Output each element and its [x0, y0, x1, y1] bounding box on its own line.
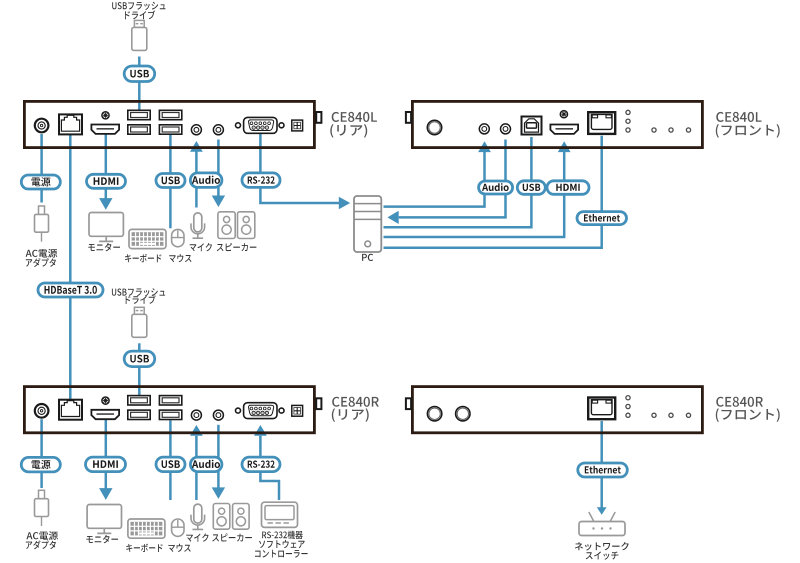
label キーボード (top): [125, 254, 161, 262]
wire power DC jack to AC adapter (bottom): [40, 419, 43, 488]
label アダプタ (top): [26, 258, 56, 267]
CE840R front pushbuttons: [652, 413, 691, 417]
label CE840R front (フロント): [716, 408, 780, 422]
wire power DC jack to AC adapter (top): [40, 134, 43, 203]
label モニター (bottom): [86, 535, 118, 543]
CE840L rear terminal block: [292, 120, 303, 131]
label PC: [362, 254, 373, 261]
label ドライブ (top) line2: [125, 11, 155, 20]
label スピーカー (bottom): [212, 533, 252, 541]
icon speakers (bottom): [213, 504, 249, 530]
wire PC to front HDMI: [384, 141, 571, 237]
icon mouse (top): [172, 229, 184, 246]
node USB oval (bottom left): [156, 457, 185, 472]
icon AC power adapter (top): [35, 206, 49, 242]
icon monitor (top): [89, 213, 123, 242]
CE840R rear grounding screw: [102, 397, 109, 404]
label CE840L front (フロント): [716, 124, 780, 138]
wire USB flash drive to CE840L rear USB port: [138, 57, 141, 111]
CE840R rear panel right mounting tab: [316, 398, 321, 409]
CE840L rear DC power jack: [35, 119, 49, 133]
label AC電源 (bottom): [26, 531, 58, 540]
label スイッチ: [586, 551, 619, 559]
label ソフトウェア: [259, 540, 305, 548]
label アダプタ (bottom): [26, 540, 56, 549]
label CE840R front name: [716, 397, 763, 407]
CE840R rear DC power jack: [35, 404, 49, 418]
CE840L front HDMI port: [550, 125, 578, 134]
node Audio oval (bottom): [190, 457, 222, 472]
wire front audio-out to PC: [387, 140, 505, 225]
node USB oval (bottom flash drive): [124, 351, 155, 367]
label マウス (bottom): [168, 544, 190, 552]
icon RS-232 software controller: [262, 502, 298, 527]
CE840R rear USB port 4 (bottom-right): [159, 410, 181, 419]
CE840R rear terminal block: [292, 405, 303, 416]
device CE840L rear panel chassis: [24, 101, 314, 147]
wire USB to keyboard/mouse (bottom): [169, 420, 172, 500]
CE840L rear USB port 4 (bottom-right): [159, 125, 181, 134]
CE840L rear DB9 RS-232 port screw right: [279, 123, 284, 128]
label スピーカー (top): [217, 243, 257, 251]
wire audio-out to speakers (top): [212, 140, 225, 208]
CE840R rear audio-out jack: [213, 410, 223, 420]
label コントローラー: [255, 550, 308, 558]
label モニター (top): [88, 243, 120, 251]
label マイク (top): [190, 243, 212, 251]
CE840L front grounding screw: [560, 111, 567, 118]
node Audio oval (front top): [479, 181, 513, 194]
node USB oval (top flash drive): [124, 66, 155, 82]
node 電源 oval (bottom): [21, 457, 60, 472]
node RS-232 oval (bottom): [242, 457, 280, 472]
node HDBaseT 3.0 oval: [38, 283, 103, 297]
wire HDBaseT 3.0 link CE840L to CE840R: [69, 135, 72, 400]
CE840L front audio-out jack: [501, 124, 511, 134]
wire mic to audio-in (top rear): [190, 141, 203, 208]
wire PC to front audio-in: [384, 141, 491, 206]
label ネットワーク: [575, 542, 629, 551]
icon microphone (top): [191, 213, 205, 238]
wire RS-232 to PC: [260, 134, 350, 209]
CE840R front panel left mounting tab: [406, 398, 411, 409]
CE840L front power button: [427, 120, 441, 134]
CE840R rear DB9 RS-232 serial port: [244, 403, 277, 419]
label USBフラッシュ (top) line1: [112, 2, 165, 10]
device CE840L front panel chassis: [412, 101, 702, 147]
label マイク (bottom): [186, 533, 208, 541]
wire USB to keyboard/mouse (top): [169, 135, 172, 228]
device CE840R front panel chassis: [412, 387, 702, 433]
node Ethernet oval (top): [577, 212, 627, 225]
label マウス (top): [169, 254, 191, 262]
device CE840R rear panel chassis: [24, 387, 314, 433]
icon PC tower: [354, 196, 381, 252]
label CE840L rear name: [332, 112, 377, 122]
label AC電源 (top): [26, 249, 58, 258]
label キーボード (bottom): [126, 544, 162, 552]
CE840R rear audio-in jack: [191, 410, 201, 420]
CE840R rear USB port 2 (bottom-left): [128, 410, 150, 419]
node Audio oval (top): [190, 173, 222, 188]
wire USB flash drive to CE840R rear USB port: [138, 343, 141, 395]
icon USB flash drive (top): [132, 20, 147, 50]
CE840L rear audio-out jack: [213, 125, 223, 135]
label USBフラッシュ (bottom) line1: [112, 288, 165, 296]
icon network switch: [579, 512, 625, 536]
icon speakers (top): [218, 212, 255, 239]
node 電源 oval (top): [21, 175, 60, 189]
wire audio-out to speakers (bottom): [212, 425, 225, 499]
CE840R front button 2: [456, 407, 470, 421]
node HDMI oval (top): [87, 174, 126, 188]
label RS-232機器: [262, 531, 303, 539]
icon USB flash drive (bottom): [132, 307, 147, 337]
wire mic to audio-in (bottom rear): [190, 425, 203, 500]
wire RS-232 controller to CE840R: [254, 425, 279, 500]
wire HDMI to monitor (top): [99, 134, 112, 210]
label CE840R rear (リア): [332, 408, 369, 422]
CE840L rear USB port 2 (bottom-left): [128, 125, 150, 134]
CE840R front LED indicators: [626, 396, 630, 418]
node RS-232 oval (top): [242, 173, 280, 188]
CE840L front pushbuttons: [652, 128, 691, 132]
CE840R rear RJ-45 HDBaseT port: [59, 400, 82, 420]
CE840L rear grounding screw: [102, 112, 109, 119]
CE840L rear audio-in jack: [191, 125, 201, 135]
wire front Ethernet to PC: [384, 136, 602, 248]
CE840L rear USB port 3 (top-right): [159, 110, 181, 119]
CE840R rear USB port 3 (top-right): [159, 396, 181, 405]
node Ethernet oval (bottom): [578, 463, 628, 477]
CE840L rear DB9 RS-232 serial port: [244, 117, 277, 133]
CE840L rear panel right mounting tab: [316, 112, 321, 123]
CE840R rear HDMI port: [91, 410, 119, 419]
CE840L front RJ-45 Ethernet port: [588, 112, 615, 134]
CE840R rear DB9 RS-232 port screw right: [279, 408, 284, 413]
icon AC power adapter (bottom): [35, 490, 49, 526]
CE840L front panel left mounting tab: [406, 112, 411, 123]
node HDMI oval (front top): [547, 181, 589, 195]
CE840R front power button: [427, 407, 441, 421]
CE840L front LED indicators: [626, 110, 630, 132]
node USB oval (front top): [517, 181, 545, 195]
wire front USB-B to PC: [384, 137, 532, 227]
label ドライブ (bottom) line2: [126, 295, 156, 304]
icon monitor (bottom): [87, 505, 121, 534]
CE840R rear DB9 RS-232 port screw left: [236, 408, 241, 413]
CE840L rear HDMI port: [91, 125, 119, 134]
CE840L rear RJ-45 HDBaseT port: [59, 114, 82, 134]
label CE840R rear name: [332, 397, 379, 407]
wire CE840R front Ethernet to network switch: [597, 421, 607, 515]
CE840R rear USB port 1 (top-left): [128, 396, 150, 405]
label CE840L front name: [716, 112, 761, 122]
icon mouse (bottom): [172, 519, 184, 536]
icon microphone (bottom): [191, 504, 205, 529]
wire HDMI to monitor (bottom): [99, 420, 112, 500]
node HDMI oval (bottom): [86, 457, 126, 472]
CE840L rear DB9 RS-232 port screw left: [236, 123, 241, 128]
label CE840L rear (リア): [330, 124, 367, 138]
node USB oval (top left): [156, 174, 185, 188]
CE840L front USB Type-B port: [522, 117, 542, 135]
CE840L front audio-in jack: [479, 124, 489, 134]
CE840R front RJ-45 Ethernet port: [588, 398, 615, 420]
icon keyboard (top): [129, 229, 166, 248]
icon keyboard (bottom): [128, 519, 165, 538]
CE840L rear USB port 1 (top-left): [128, 110, 150, 119]
